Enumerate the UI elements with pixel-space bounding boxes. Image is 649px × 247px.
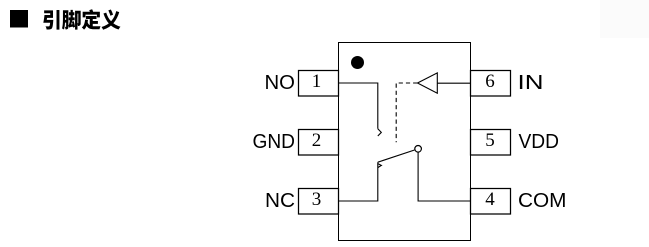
section header bullet square xyxy=(10,10,28,28)
net label NC xyxy=(265,189,295,212)
pin 4 box xyxy=(471,189,511,215)
svg-text:NO: NO xyxy=(265,71,296,94)
switch pole circle xyxy=(415,146,422,153)
pin 2 box xyxy=(299,130,339,156)
svg-text:1: 1 xyxy=(312,71,322,92)
svg-text:IN: IN xyxy=(518,71,544,94)
pin 3 number xyxy=(312,189,322,210)
pin 6 number xyxy=(485,71,495,92)
pin 2 number xyxy=(312,130,322,151)
pin 6 box xyxy=(471,71,511,97)
net label GND xyxy=(253,130,296,153)
svg-text:3: 3 xyxy=(312,189,322,210)
svg-text:GND: GND xyxy=(253,130,296,153)
wire NO pin1 to switch contact xyxy=(339,83,378,129)
wire IN pin6 to buffer xyxy=(437,82,470,84)
svg-text:5: 5 xyxy=(485,130,495,151)
svg-text:VDD: VDD xyxy=(519,130,560,153)
pin 1 box xyxy=(299,71,339,97)
switch lever xyxy=(378,150,415,162)
net label VDD xyxy=(519,130,560,153)
buffer driver triangle xyxy=(418,73,438,93)
net label NO xyxy=(265,71,296,94)
contact chevron NC xyxy=(378,164,382,168)
svg-text:2: 2 xyxy=(312,130,322,151)
section title 引脚定义 xyxy=(43,9,120,29)
wire NC pin3 to switch contact xyxy=(339,162,378,201)
svg-text:COM: COM xyxy=(518,189,567,212)
svg-text:NC: NC xyxy=(265,189,295,212)
net label IN xyxy=(518,71,544,94)
pin 1 indicator dot xyxy=(351,56,364,69)
IC package body U1 xyxy=(339,43,471,241)
watermark block top right xyxy=(600,0,649,38)
svg-text:4: 4 xyxy=(485,189,495,210)
pin 5 box xyxy=(471,130,511,156)
net label COM xyxy=(518,189,567,212)
svg-text:6: 6 xyxy=(485,71,495,92)
contact chevron NO xyxy=(378,129,382,136)
dashed control line xyxy=(396,83,417,142)
pin 5 number xyxy=(485,130,495,151)
pin 1 number xyxy=(312,71,322,92)
pin 3 box xyxy=(299,189,339,215)
pin 4 number xyxy=(485,189,495,210)
wire COM pin4 to pole xyxy=(418,152,470,201)
